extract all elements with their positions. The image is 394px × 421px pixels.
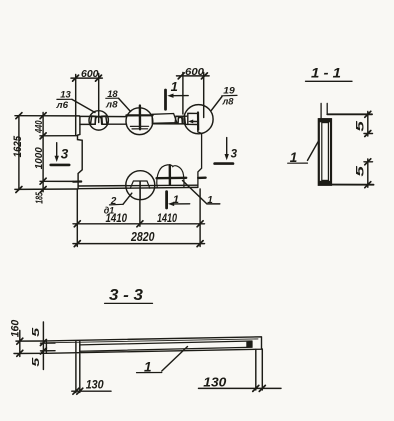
lifting loop left: left foot <box>91 116 96 124</box>
channel inner <box>322 123 329 181</box>
lifting loop left: arch <box>95 117 102 125</box>
leader of label 1 (3-3) <box>162 347 188 372</box>
svg-text:5: 5 <box>31 357 42 367</box>
dim 130 right: line <box>199 387 282 389</box>
panel bottom edge inner <box>78 184 198 187</box>
dim 5 bottom: extension <box>364 161 373 163</box>
svg-text:1410: 1410 <box>106 213 128 225</box>
dim 130 left: extensions <box>76 354 80 393</box>
section marker 3 right: arrow <box>226 138 228 156</box>
svg-text:л6: л6 <box>55 100 68 111</box>
left chain ticks <box>40 113 46 193</box>
leader of label 1 <box>308 141 319 161</box>
panel right edge with notch <box>198 114 202 187</box>
svg-text:3: 3 <box>61 147 69 162</box>
svg-text:1410: 1410 <box>157 213 177 225</box>
embedded plate (trapezoid) on top edge <box>152 114 177 124</box>
svg-text:1: 1 <box>173 194 179 206</box>
dim 130 left: ticks <box>73 388 83 394</box>
callout circle 2/D1 (bottom recess) <box>126 171 155 200</box>
short edge segment near right loop <box>177 115 187 117</box>
svg-text:2820: 2820 <box>130 230 154 244</box>
svg-text:3 - 3: 3 - 3 <box>109 287 143 304</box>
dim 5 bottom: line <box>367 159 369 187</box>
right edge level tick <box>198 176 205 179</box>
svg-text:440: 440 <box>33 120 45 133</box>
leader to label 1 (bottom right) <box>183 181 220 204</box>
section marker 1 bottom: bar <box>165 192 168 208</box>
dim 5 (3-3): extensions <box>41 343 56 351</box>
svg-text:1 - 1: 1 - 1 <box>311 65 341 81</box>
recess center line <box>139 182 141 200</box>
svg-text:600: 600 <box>185 66 204 78</box>
embed 18: lower shelf lines <box>130 126 148 129</box>
svg-text:5: 5 <box>355 120 367 132</box>
dim 600 top-left: ticks <box>73 75 102 81</box>
svg-text:5: 5 <box>31 327 42 337</box>
section marker 3 right: bar <box>215 162 233 165</box>
weld blob cross horizontal <box>157 177 187 180</box>
panel bottom line <box>331 184 374 186</box>
panel top edge outer line <box>80 115 127 117</box>
leader 18/L8 <box>119 98 131 111</box>
dim 1625 left: ticks <box>16 113 22 193</box>
bottom total ticks <box>74 241 203 247</box>
weld blob on bottom edge <box>157 165 184 187</box>
callout circle 18/L8 (embed) <box>126 108 153 135</box>
svg-text:1: 1 <box>207 195 213 206</box>
dim 130 right: ticks <box>253 385 265 391</box>
leader 19/L8 <box>211 97 222 111</box>
embedded channel in slab <box>80 341 252 351</box>
corner embed step <box>188 113 198 124</box>
svg-text:130: 130 <box>86 377 104 391</box>
svg-text:3: 3 <box>231 148 238 160</box>
dim 600 top-left: line <box>71 77 102 79</box>
corner embed arrow <box>192 120 197 122</box>
slab second top line <box>46 339 258 343</box>
panel top line <box>327 113 372 115</box>
svg-text:19: 19 <box>223 85 235 96</box>
embed 18: thick horizontal bar <box>126 114 152 116</box>
dim 5 (3-3): ticks <box>40 340 46 355</box>
dim 1625 left: line <box>18 116 20 190</box>
recess trapezoid <box>130 181 150 188</box>
thick right edge segment inside circle <box>197 113 199 130</box>
title underline <box>105 302 153 304</box>
svg-text:1: 1 <box>171 79 178 94</box>
channel top cap <box>318 118 331 122</box>
svg-text:5: 5 <box>355 165 367 177</box>
dim 600 top-right: line <box>177 75 210 77</box>
lifting loop right: right foot <box>182 116 185 123</box>
embed 18: vertical bar <box>139 106 142 130</box>
svg-text:1625: 1625 <box>12 135 24 157</box>
title underline <box>306 80 353 82</box>
svg-text:130: 130 <box>203 376 226 390</box>
dim 600 top-right: extension lines <box>183 73 204 118</box>
svg-text:л8: л8 <box>105 99 118 110</box>
dim 600 top-right: ticks <box>178 73 207 79</box>
dim 5 top: extension <box>364 133 373 135</box>
left dims extension lines <box>15 116 79 190</box>
dim 130 left: line <box>72 390 111 392</box>
dim 5 top: line <box>367 112 369 137</box>
joint verticals left of channel <box>76 342 80 354</box>
panel bottom edge outer <box>78 187 198 188</box>
section marker 1 top: bar <box>164 90 167 109</box>
left chain dim line <box>42 113 44 192</box>
bottom extension lines <box>77 189 200 247</box>
section marker 3 left: bar <box>51 164 69 167</box>
lifting loop right: left foot <box>175 116 178 123</box>
weld blob cross vertical <box>169 165 171 184</box>
dim 5 top: ticks <box>365 111 371 136</box>
svg-text:1000: 1000 <box>33 147 45 169</box>
panel top edge inner line right part <box>153 123 198 126</box>
channel bottom cap <box>318 181 331 185</box>
bottom chain dim line <box>73 223 205 225</box>
dim 5 (3-3): line <box>42 322 44 370</box>
callout circle 13/L6 (lifting loop) <box>89 111 108 130</box>
callout circle 19/L8 (corner embed) <box>184 105 213 134</box>
svg-text:л8: л8 <box>222 96 235 107</box>
leader 2/D1 <box>123 193 132 204</box>
dim 160: ticks <box>17 338 23 356</box>
bottom chain ticks <box>74 221 203 227</box>
dim 160: extensions <box>14 341 46 354</box>
panel top edge inner (rebate) line left part <box>80 123 127 125</box>
dim 600 top-left: extension lines <box>76 74 99 136</box>
panel left edge with notch <box>78 116 83 188</box>
section marker 1 bottom: arrow <box>173 203 190 205</box>
svg-text:600: 600 <box>81 68 99 80</box>
channel outer <box>319 119 331 185</box>
left edge level tick 185 <box>73 180 81 182</box>
slab outline <box>46 337 261 354</box>
channel right end dark fill <box>246 341 251 347</box>
bars above channel <box>321 103 327 119</box>
section marker 3 left: arrow <box>56 143 58 158</box>
dim 160: line <box>19 331 21 357</box>
bottom total dim line <box>73 243 205 245</box>
lifting loop right: arch <box>178 117 182 123</box>
lifting loop left: right foot <box>102 116 107 124</box>
section marker 1 top: arrow <box>172 95 188 97</box>
dim 5 bottom: ticks <box>365 159 371 188</box>
dim 130 right: extensions <box>256 349 262 390</box>
leader 13/L6 <box>72 99 95 112</box>
svg-text:185: 185 <box>34 192 45 204</box>
